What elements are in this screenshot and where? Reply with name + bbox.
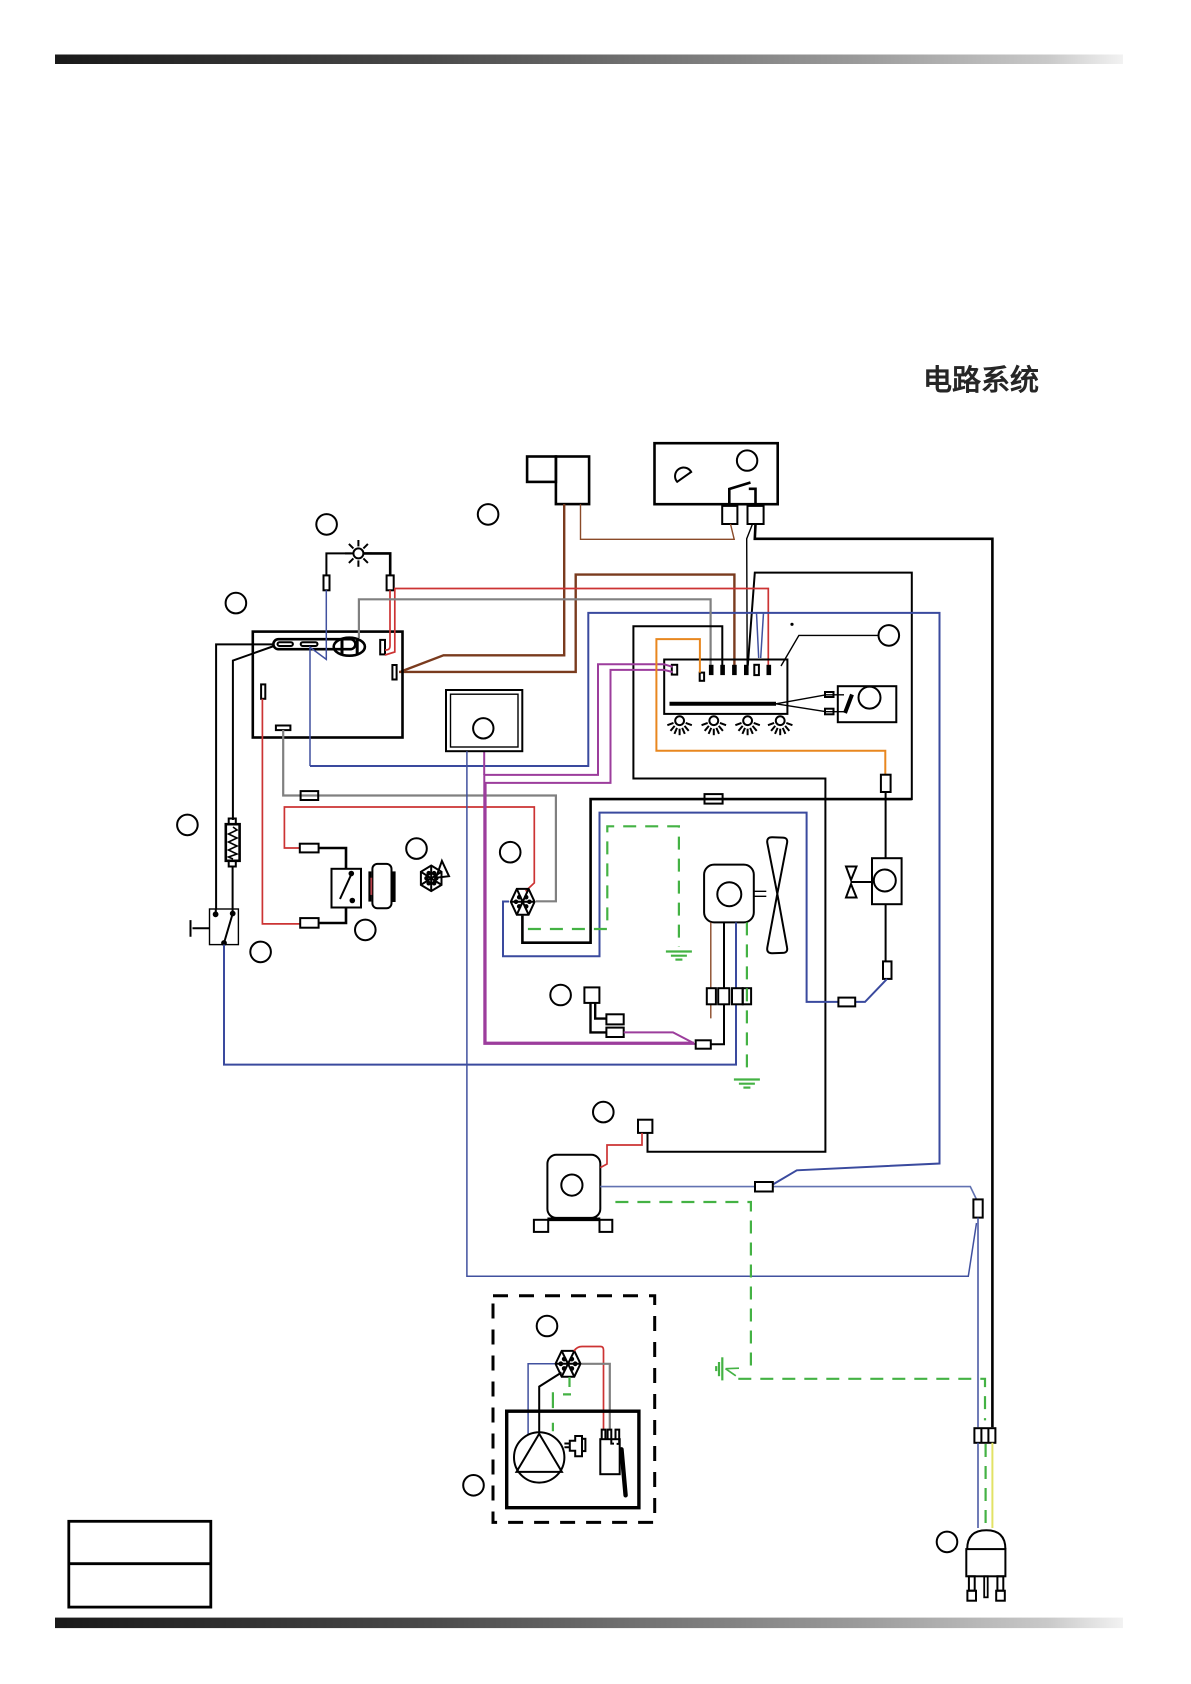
- washer fan hexagon: [556, 1351, 581, 1377]
- wire brown bridge from main box pin to terminal T5: [399, 575, 734, 672]
- lamp symbol top left: [345, 540, 372, 567]
- wire yellow connector to plug: [991, 1443, 993, 1528]
- wire blue V-drop to terminal T7: [757, 613, 764, 658]
- callout circle 14: [937, 1532, 958, 1553]
- fuse F2 right: [387, 575, 394, 590]
- ignition coil component: [600, 1430, 619, 1475]
- callout circle 9: [250, 942, 271, 963]
- dashed service box: [493, 1296, 655, 1523]
- wire black orange-terminal to valve box: [885, 792, 887, 858]
- wire blue valve terminal to condenser fan: [503, 813, 887, 1002]
- wire black T4 around left route to pump connector: [633, 626, 825, 1152]
- callout circle 5: [177, 815, 198, 836]
- top gradient bar: [55, 55, 1123, 65]
- connector on fan black wire: [705, 794, 723, 804]
- wire black hex to pump: [539, 1373, 561, 1433]
- wire blue terminal to plug connector: [977, 1218, 979, 1428]
- valve bowtie symbol: [846, 867, 872, 898]
- glow lamp 1: [667, 716, 691, 735]
- wire blue motor pin3: [735, 922, 737, 988]
- glow lamp 2: [702, 716, 726, 735]
- compressor foot left: [534, 1220, 548, 1232]
- fuse F1 left: [324, 575, 330, 590]
- wire rail1 into switch: [215, 909, 217, 914]
- plug feed terminal: [973, 1199, 982, 1217]
- bus bar fork to relay2: [776, 695, 846, 712]
- ignition switch box: [655, 443, 778, 504]
- relay box: [332, 869, 362, 908]
- wire red R1 main box to relay connector: [262, 699, 300, 924]
- wire black motor pin2: [723, 922, 725, 988]
- control unit box: [664, 660, 787, 714]
- terminal pin main box left: [261, 684, 265, 698]
- ground symbol chassis: [716, 1357, 739, 1380]
- connector on B2: [755, 1182, 773, 1192]
- ground symbol motor: [734, 1080, 760, 1088]
- relay2 box right: [838, 686, 897, 722]
- connector small lower: [825, 709, 834, 715]
- wire black loop T6 around right side: [748, 573, 912, 800]
- resistor with zigzag: [226, 819, 240, 867]
- connector small upper: [825, 692, 834, 697]
- wire black connector to relay bottom: [319, 908, 346, 924]
- relay2 slash contact: [845, 695, 852, 714]
- pump outlet plug: [564, 1436, 585, 1456]
- wire blue connector to plug: [977, 1443, 979, 1528]
- terminal T5: [732, 665, 737, 675]
- fuse slot 1: [278, 642, 293, 646]
- wire resistor to toggle switch: [232, 867, 234, 914]
- wire red R3 to condenser fan: [284, 807, 534, 891]
- wire black stadium to resistor: [233, 646, 274, 820]
- bus bar in control unit: [670, 702, 777, 706]
- orange terminal rect: [881, 775, 891, 792]
- callout circle 7: [500, 842, 521, 863]
- terminal T7: [754, 665, 759, 675]
- wire red connector to compressor: [600, 1133, 642, 1168]
- green dashes in service box: [553, 1377, 571, 1431]
- svg-text:电路系统: 电路系统: [923, 363, 1039, 397]
- toggle switch box: [210, 909, 239, 945]
- wire lamp right lead: [364, 553, 390, 575]
- bottom slot in main box: [276, 726, 291, 731]
- terminal T4: [720, 665, 725, 675]
- heater resistor double box: [446, 690, 522, 751]
- callout circle 4: [879, 625, 900, 646]
- wire black diagonal to terminal T6: [747, 524, 753, 666]
- heater box circle: [473, 718, 493, 738]
- fan propeller blades: [767, 837, 787, 953]
- callout circle 1: [316, 514, 337, 535]
- bottom gradient bar: [55, 1618, 1123, 1629]
- motor connector blocks: [707, 988, 751, 1004]
- wire red fuse to battery terminal: [385, 590, 390, 650]
- wire black from ignition connector to right rail: [755, 524, 993, 1427]
- relay2 circle: [859, 687, 881, 709]
- wire blue B1 to right rail: [310, 613, 940, 1185]
- indicator lamp circle in ignition box: [737, 450, 757, 470]
- compressor box: [547, 1155, 600, 1218]
- connector on R1: [300, 918, 318, 928]
- connector under ignition box right: [748, 506, 764, 524]
- red mark in capacitor: [370, 878, 372, 895]
- relay contacts: [340, 872, 354, 903]
- wire blue B4 switch to fan motor: [224, 945, 736, 1065]
- callout circle 11: [593, 1102, 614, 1123]
- wire black stadium to left rail 1: [216, 644, 274, 909]
- fan motor box: [704, 865, 754, 923]
- wire brown thin from L-box to ignition connector: [581, 504, 735, 539]
- toggle lever: [191, 920, 210, 937]
- motor oval symbol in main box: [334, 638, 365, 656]
- callout circle 3: [226, 593, 247, 614]
- terminal under valve: [883, 961, 892, 979]
- fuse holder stadium: [273, 639, 355, 649]
- green dashed to plug: [738, 1379, 985, 1528]
- wire blue thin heater to plug rail B3: [467, 751, 977, 1276]
- wire orange T2 loop to valve: [656, 639, 885, 775]
- callout circle 10: [550, 985, 571, 1006]
- legend table bottom left: [69, 1521, 211, 1607]
- connector under ignition box left: [722, 506, 737, 524]
- connector on G2: [301, 791, 319, 800]
- washer pump symbol: [514, 1432, 564, 1482]
- fuse slot 2: [301, 642, 318, 646]
- wire purple from heater box: [483, 751, 485, 775]
- terminal in main box top right: [380, 640, 385, 655]
- wire purple P2 control to pump connector: [486, 670, 694, 1043]
- terminal T8: [767, 665, 772, 675]
- green dashed condenser loop: [528, 826, 679, 947]
- wire brown thick from L-box down-left to main box pin: [401, 504, 564, 671]
- green dashed motor ground: [746, 922, 748, 1076]
- wire blue fuse to fuse slot 2: [310, 590, 326, 766]
- dot near control box: [790, 623, 793, 626]
- wire gray G1 from main box motor to terminal T3: [359, 599, 711, 665]
- connector on R3: [300, 844, 319, 853]
- callout circle 8: [355, 920, 376, 941]
- thermal switch component: [584, 987, 623, 1037]
- wire black control box corner to callout: [781, 635, 879, 666]
- solenoid L-box: [527, 457, 589, 505]
- glow lamp 4: [768, 716, 792, 735]
- switch symbol in ignition box: [729, 483, 755, 505]
- green dashed chassis run: [615, 1202, 751, 1369]
- toggle switch contacts: [214, 912, 235, 945]
- wire purple P1 control to pump connector: [484, 664, 695, 1044]
- fan shaft: [754, 891, 767, 896]
- wire black condenser fan loop to pump connector rail: [522, 799, 911, 943]
- callout circle 12: [537, 1316, 558, 1337]
- ground symbol condenser: [666, 952, 692, 960]
- terminal T1: [672, 665, 677, 675]
- glow lamp 3: [735, 716, 759, 735]
- wire black valve to terminal: [885, 904, 887, 961]
- wire gray G2 main box to condenser fan: [283, 730, 556, 901]
- wire red R4 battery terminal to terminal T8: [385, 589, 768, 666]
- coil lever diagonal: [622, 1449, 626, 1495]
- compressor foot right: [600, 1220, 613, 1232]
- wire lamp left lead: [326, 553, 353, 575]
- condenser fan symbol F2: [511, 889, 535, 915]
- wire brown motor pin1: [710, 922, 712, 1018]
- power plug: [966, 1530, 1005, 1601]
- capacitor component: [370, 864, 394, 908]
- terminal T6: [744, 665, 749, 675]
- terminal T3: [709, 665, 714, 675]
- callout circle 2: [478, 504, 499, 525]
- callout circle 6: [406, 838, 427, 859]
- water valve motor circle: [874, 870, 896, 892]
- 3-pin inline connector: [974, 1428, 995, 1443]
- connector purple wires: [696, 1040, 711, 1048]
- wire black connector to relay top: [319, 848, 346, 869]
- callout circle 13: [463, 1475, 484, 1496]
- square connector near compressor: [638, 1120, 652, 1133]
- connector on blue valve wire: [838, 998, 855, 1007]
- washer solid box: [507, 1411, 639, 1508]
- terminal pin on main box right edge: [392, 665, 396, 680]
- compressor circle: [561, 1175, 582, 1196]
- half-moon symbol in ignition box: [675, 468, 691, 482]
- wire blue B2 compressor to plug terminal: [600, 1187, 976, 1200]
- terminal T2: [700, 673, 704, 681]
- wire blue hex to pump: [528, 1364, 554, 1435]
- wire gray hex to coil: [582, 1364, 610, 1430]
- wire red hex to coil: [574, 1347, 604, 1431]
- wire black connector to motor pin rail: [711, 1004, 724, 1044]
- wire purple thermal switch to connector: [624, 1032, 693, 1042]
- thermo fan symbol F1: [421, 861, 449, 891]
- fan motor circle: [717, 882, 741, 906]
- main fuse box: [253, 632, 403, 738]
- water valve box: [872, 858, 902, 904]
- compressor base bar: [547, 1218, 600, 1222]
